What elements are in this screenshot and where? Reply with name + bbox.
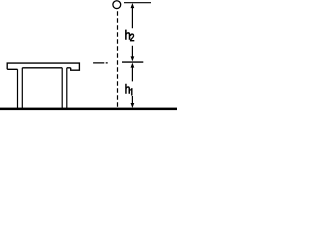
- h2 arrowhead up: [131, 3, 135, 8]
- h2 arrowhead down: [131, 56, 135, 61]
- label h1: [126, 84, 130, 93]
- ball: [113, 1, 121, 9]
- table level mark: [93, 62, 108, 64]
- ground: [0, 108, 177, 111]
- table leg right: [62, 68, 67, 110]
- label h2: [125, 30, 134, 41]
- top reference line: [124, 2, 151, 4]
- label h1 subscript 1: [130, 88, 132, 95]
- table top slab with end lips: [7, 63, 79, 70]
- middle tick: [122, 61, 143, 63]
- h1 arrowhead up: [131, 63, 135, 68]
- dashed drop line: [117, 11, 119, 107]
- h2 dimension line: [131, 8, 133, 58]
- h1 dimension line: [131, 68, 133, 104]
- h1 arrowhead down: [131, 103, 135, 108]
- table leg left: [18, 68, 23, 110]
